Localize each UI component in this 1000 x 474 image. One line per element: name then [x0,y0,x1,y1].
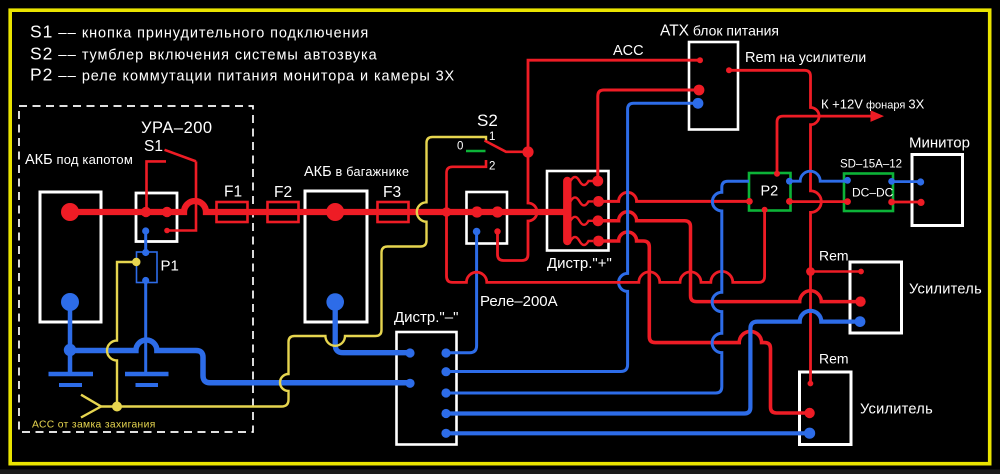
contact box S1 [136,193,177,242]
wire S2 contact-2 branch to P2 coil (humps over crossing wires) [447,210,765,282]
wire GB1 negative to ground [68,302,73,374]
fuse squiggle 1 [571,177,594,185]
node P2 top pin [774,171,780,177]
node P2 bottom pin [762,207,768,213]
svg-text:ATX блок питания: ATX блок питания [660,23,779,40]
node ATX +12V pin [694,85,705,96]
svg-text:К +12V фонаря 3X: К +12V фонаря 3X [821,97,925,112]
wire S1 blue contact down to P1 [144,231,147,253]
svg-text:ACC: ACC [613,43,644,59]
wire Rem branch to amplifier 1 [811,270,862,272]
wire P1 to ground [144,281,147,375]
node amplifier 2 +12V pin [804,408,814,418]
wire S1 left post [147,161,167,212]
node S2 common pivot [522,146,533,157]
node Дистр.+ fuse 4 [593,236,604,247]
svg-text:АСС от замка захигания: АСС от замка захигания [32,420,156,431]
node Дистр.- right pin 1 [441,348,450,357]
node Дистр.- right pin 3 [441,388,450,397]
fuse F1 [217,202,248,222]
fuse F2 [268,202,299,222]
ground symbol under GB1 (bar 1) [49,372,94,377]
svg-text:Минитор: Минитор [909,135,970,152]
wire DC-DC to monitor (blue) [892,180,921,183]
fuse squiggle 4 [571,237,594,245]
node relay coil red [494,228,500,234]
svg-text:P2: P2 [761,184,779,200]
svg-text:Rem: Rem [819,248,849,264]
node P2 right red pin [786,198,793,205]
node P1 coil bottom [142,277,149,284]
svg-text:АКБ под капотом: АКБ под капотом [25,152,133,168]
wire S1 right post down to contact [169,161,197,230]
node DC-DC left blue pin [844,177,851,184]
wire S2 contact 2 to main line junction [447,160,487,212]
node Дистр.- left pin 1 [405,348,414,357]
node Дистр.- right pin 5 [441,429,450,438]
node ATX ground pin [693,98,704,109]
node amplifier 1 Rem pin [858,269,864,275]
svg-text:DC–DC: DC–DC [852,186,894,200]
DC-DC converter box [844,174,893,212]
svg-text:УРА–200: УРА–200 [141,119,213,137]
node P2 left pin [746,198,753,205]
distributor block Дистр.- box [397,332,457,445]
svg-text:0: 0 [457,141,463,153]
node Дистр.+ fuse 2 [593,196,604,207]
wire Дистр.+ fuse 4 to amplifier 2 +12V (hops over ground wire to amp1) [599,232,810,413]
wire Дистр.+ fuse 2 to P2 (hops over ATX ground wire) [599,192,750,201]
amplifier 2 box [800,372,852,445]
node Дистр.+ fuse 3 [593,215,604,226]
wire P2 to DC-DC (blue, hops over Rem wire) [789,171,847,181]
wire Дистр.- to amplifier 1 ground (hops over Rem wire) [446,311,860,414]
node P1 yellow pin [132,258,140,266]
svg-text:S2: S2 [477,111,498,130]
node S1 contact right [162,207,172,217]
node amplifier 2 Rem pin [808,381,814,387]
svg-text:Rem на усилители: Rem на усилители [745,49,866,66]
wire main ground trunk GB1 to Дистр.- (hops over P1 ground wire at x=146) [70,340,410,383]
svg-text:Дистр."–": Дистр."–" [394,309,458,326]
node ground junction [64,344,76,356]
svg-text:SD–15A–12: SD–15A–12 [840,159,902,171]
ACC arrow head [81,395,101,418]
battery GB1 box (АКБ под капотом) [40,192,101,322]
svg-text:Дистр."+": Дистр."+" [547,255,612,272]
switch S2 blade [485,141,524,152]
svg-text:F3: F3 [383,184,401,201]
relay Реле-200А box [467,192,508,244]
ground symbol under P1 (bar 1) [125,372,169,377]
svg-text:2: 2 [489,161,495,173]
monitor box (Минитор) [912,155,963,226]
node S1 aux contact [164,228,170,234]
node DC-DC right red pin [888,199,895,206]
ground symbol under GB1 (bar 2) [59,383,82,387]
node GB1 negative terminal [61,293,79,311]
svg-text:АКБ в багажнике: АКБ в багажнике [304,164,409,180]
node relay contact right [492,206,503,217]
amplifier 1 box [850,262,902,333]
wire Rem from ATX to amplifiers (hops over +12V lantern wire and P2 output) [729,70,821,383]
node S1 contact left [141,207,151,217]
fuse squiggle 2 [571,197,594,205]
node ACC source junction [112,402,122,412]
enclosure УРА-200 dashed box [19,106,253,432]
wire ACC yellow from ignition to S2 contact 1 (hops over blue and red lines) [101,137,486,407]
svg-text:1: 1 [489,131,495,143]
distributor block Дистр.+ box [547,171,609,251]
wire relay coil blue to Дистр.- [446,232,477,353]
switch S1 blade [165,150,197,162]
fuse F3 [378,202,409,222]
node Дистр.+ fuse 1 [592,176,603,187]
fuse squiggle 3 [571,217,594,225]
node GB2 positive terminal [326,203,344,221]
wire P2 output to DC-DC (red) [789,200,847,203]
node monitor blue pin [917,178,924,185]
wire P2 to +12V lantern 3X arrow [777,116,872,173]
node relay contact left [471,206,482,217]
wire DC-DC to monitor (red) [892,201,921,204]
svg-text:F1: F1 [224,184,242,201]
node DC-DC right blue pin [888,178,895,185]
node ATX ACC pin [697,57,703,63]
relay P1 box [137,252,158,283]
node P1 coil top [142,249,149,256]
node monitor red pin [917,199,924,206]
svg-text:Rem: Rem [819,351,849,367]
svg-text:Усилитель: Усилитель [860,402,933,418]
arrow head +12V lantern [871,110,885,122]
svg-text:S1: S1 [144,138,163,155]
wire Дистр.+ fuse 1 to ATX +12V [598,90,699,181]
wire GB2 negative to Дистр.- [335,302,410,353]
wire ATX ground to Дистр.- (hops over S2 relay-coil feed line) [446,103,698,371]
svg-text:Реле–200А: Реле–200А [480,293,558,310]
node main line junction at S2 branch [442,207,452,217]
node GB1 positive terminal [61,203,79,221]
node relay coil blue [473,228,481,236]
node Дистр.- right pin 4 [441,409,450,418]
wire yellow branch to P1 coil (hops over ground trunk) [107,262,136,407]
node amplifier 1 ground pin [855,316,866,327]
ATX power supply box [689,42,738,130]
node DC-DC left red pin [844,198,851,205]
node Дистр.- right pin 2 [441,367,450,376]
node Rem junction [806,267,815,276]
node S1 blue contact [142,227,149,234]
wire Дистр.- to amplifier 2 ground [446,431,810,435]
node Дистр.- left pin 2 [405,379,414,388]
node amplifier 1 +12V pin [855,296,865,306]
battery GB2 box (АКБ в багажнике) [305,191,367,322]
node GB2 negative terminal [326,293,344,311]
bus bar of Дистр.+ [563,181,571,241]
node ATX Rem pin [726,67,732,73]
node P2 right blue pin [786,178,793,185]
wire Дистр.+ fuse 3 to amplifier 1 +12V (hops over ATX ground and Rem wires) [599,212,861,302]
svg-text:F2: F2 [274,184,292,201]
svg-text:P1: P1 [161,258,179,275]
wire P2 ground to Дистр.- (hops over three red lines) [446,181,749,393]
wire ACC line from ATX to S2 common and down to relay coil (hops over main line) [498,60,701,260]
wire main +12V line GB1 to Дистр.+ bus (hops over S1 blade wire at x=196) [70,201,566,212]
svg-text:Усилитель: Усилитель [909,282,982,298]
ground symbol under P1 (bar 2) [136,383,159,387]
relay P2 box [749,173,791,211]
contact 0 stub (green) [466,150,486,153]
node amplifier 2 ground pin [804,428,815,439]
